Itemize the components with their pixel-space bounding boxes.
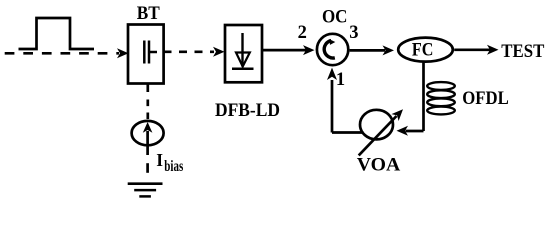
svg-text:1: 1: [336, 70, 345, 90]
svg-text:BT: BT: [137, 4, 161, 24]
svg-text:I: I: [156, 150, 163, 170]
svg-text:OFDL: OFDL: [462, 89, 509, 109]
svg-text:FC: FC: [412, 41, 434, 61]
svg-text:TEST: TEST: [501, 42, 545, 62]
svg-text:VOA: VOA: [357, 156, 401, 176]
svg-text:OC: OC: [322, 8, 348, 28]
svg-text:DFB-LD: DFB-LD: [215, 101, 280, 121]
svg-text:2: 2: [298, 23, 307, 43]
svg-text:bias: bias: [164, 158, 183, 175]
svg-text:3: 3: [349, 23, 358, 43]
